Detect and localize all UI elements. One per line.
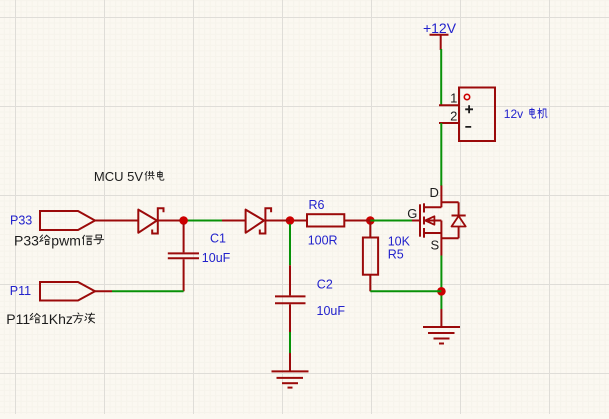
resistor R6 bbox=[290, 214, 370, 226]
port P11 flag bbox=[40, 282, 95, 301]
svg-text:100R: 100R bbox=[308, 234, 338, 248]
svg-text:C1: C1 bbox=[210, 231, 226, 245]
wire C2 to ground bbox=[289, 332, 291, 353]
note MCU 5V supply bbox=[94, 169, 164, 184]
svg-text:G: G bbox=[407, 206, 417, 221]
label 12v motor bbox=[504, 107, 547, 121]
label R6 value 100R bbox=[308, 234, 338, 248]
diode D1 schottky bbox=[95, 208, 180, 233]
node R6/R5/gate junction bbox=[366, 216, 375, 225]
wire C1 node to D2 anode bbox=[186, 220, 222, 222]
node source/R5/GND junction bbox=[437, 287, 446, 296]
svg-text:pwm: pwm bbox=[51, 233, 81, 249]
label C1 bbox=[210, 231, 226, 245]
label C1 value 10uF bbox=[202, 251, 231, 265]
connector J1 12v motor body bbox=[459, 88, 495, 142]
node D2/R6/C2 junction bbox=[286, 216, 295, 225]
wire junction down to C2 bbox=[289, 224, 291, 265]
wire Q1 source down to bottom node bbox=[440, 256, 442, 310]
capacitor C1 bbox=[168, 224, 199, 291]
svg-text:P33: P33 bbox=[14, 233, 39, 249]
svg-text:10uF: 10uF bbox=[202, 251, 231, 265]
svg-text:+12V: +12V bbox=[423, 20, 457, 36]
svg-text:S: S bbox=[431, 237, 440, 252]
node D1/C1/D2 junction bbox=[179, 216, 188, 225]
pin lead P11 bbox=[95, 290, 112, 292]
svg-text:C2: C2 bbox=[317, 278, 333, 292]
svg-text:10K: 10K bbox=[388, 234, 411, 248]
label C2 value 10uF bbox=[317, 304, 346, 318]
svg-text:P33: P33 bbox=[10, 214, 32, 228]
ground GND right bbox=[423, 309, 460, 344]
note P33 pwm signal bbox=[14, 233, 104, 249]
svg-text:P11: P11 bbox=[10, 284, 31, 298]
wire +12V to connector pin 1 bbox=[440, 49, 442, 105]
note P11 1khz square wave bbox=[6, 311, 94, 327]
wire connector pin 2 to Q1 drain bbox=[440, 123, 442, 186]
body diode of Q1 bbox=[452, 202, 466, 238]
net +12V flag bbox=[423, 20, 457, 50]
label R5 value 10K bbox=[388, 234, 411, 248]
svg-text:1: 1 bbox=[450, 90, 457, 105]
label C2 bbox=[317, 278, 333, 292]
resistor R5 bbox=[363, 221, 378, 292]
pin label D bbox=[430, 185, 439, 200]
svg-text:P11: P11 bbox=[6, 311, 30, 327]
label R5 bbox=[388, 247, 404, 261]
wire R5 bottom to junction bbox=[370, 290, 441, 292]
svg-text:R6: R6 bbox=[309, 198, 325, 212]
svg-text:D: D bbox=[430, 185, 439, 200]
connector J1 pin 2 bbox=[439, 108, 459, 123]
transistor Q1 NMOS bbox=[412, 186, 459, 256]
pin label G bbox=[407, 206, 417, 221]
label P11 bbox=[10, 284, 31, 298]
svg-text:2: 2 bbox=[450, 108, 457, 123]
port P33 flag bbox=[40, 211, 95, 230]
label R6 bbox=[309, 198, 325, 212]
svg-text:R5: R5 bbox=[388, 247, 404, 261]
svg-text:MCU 5V: MCU 5V bbox=[94, 169, 143, 184]
wire junction to gate bbox=[370, 220, 412, 222]
svg-text:1Khz: 1Khz bbox=[41, 311, 73, 327]
diode D2 schottky bbox=[222, 208, 290, 233]
label P33 bbox=[10, 214, 32, 228]
ground GND below C2 bbox=[272, 353, 309, 388]
pin label S bbox=[431, 237, 440, 252]
svg-text:12v: 12v bbox=[504, 107, 523, 121]
svg-text:10uF: 10uF bbox=[317, 304, 346, 318]
wire P11 to C1 bottom bbox=[112, 290, 184, 292]
capacitor C2 bbox=[275, 265, 306, 332]
connector J1 pin 1 bbox=[439, 90, 459, 105]
